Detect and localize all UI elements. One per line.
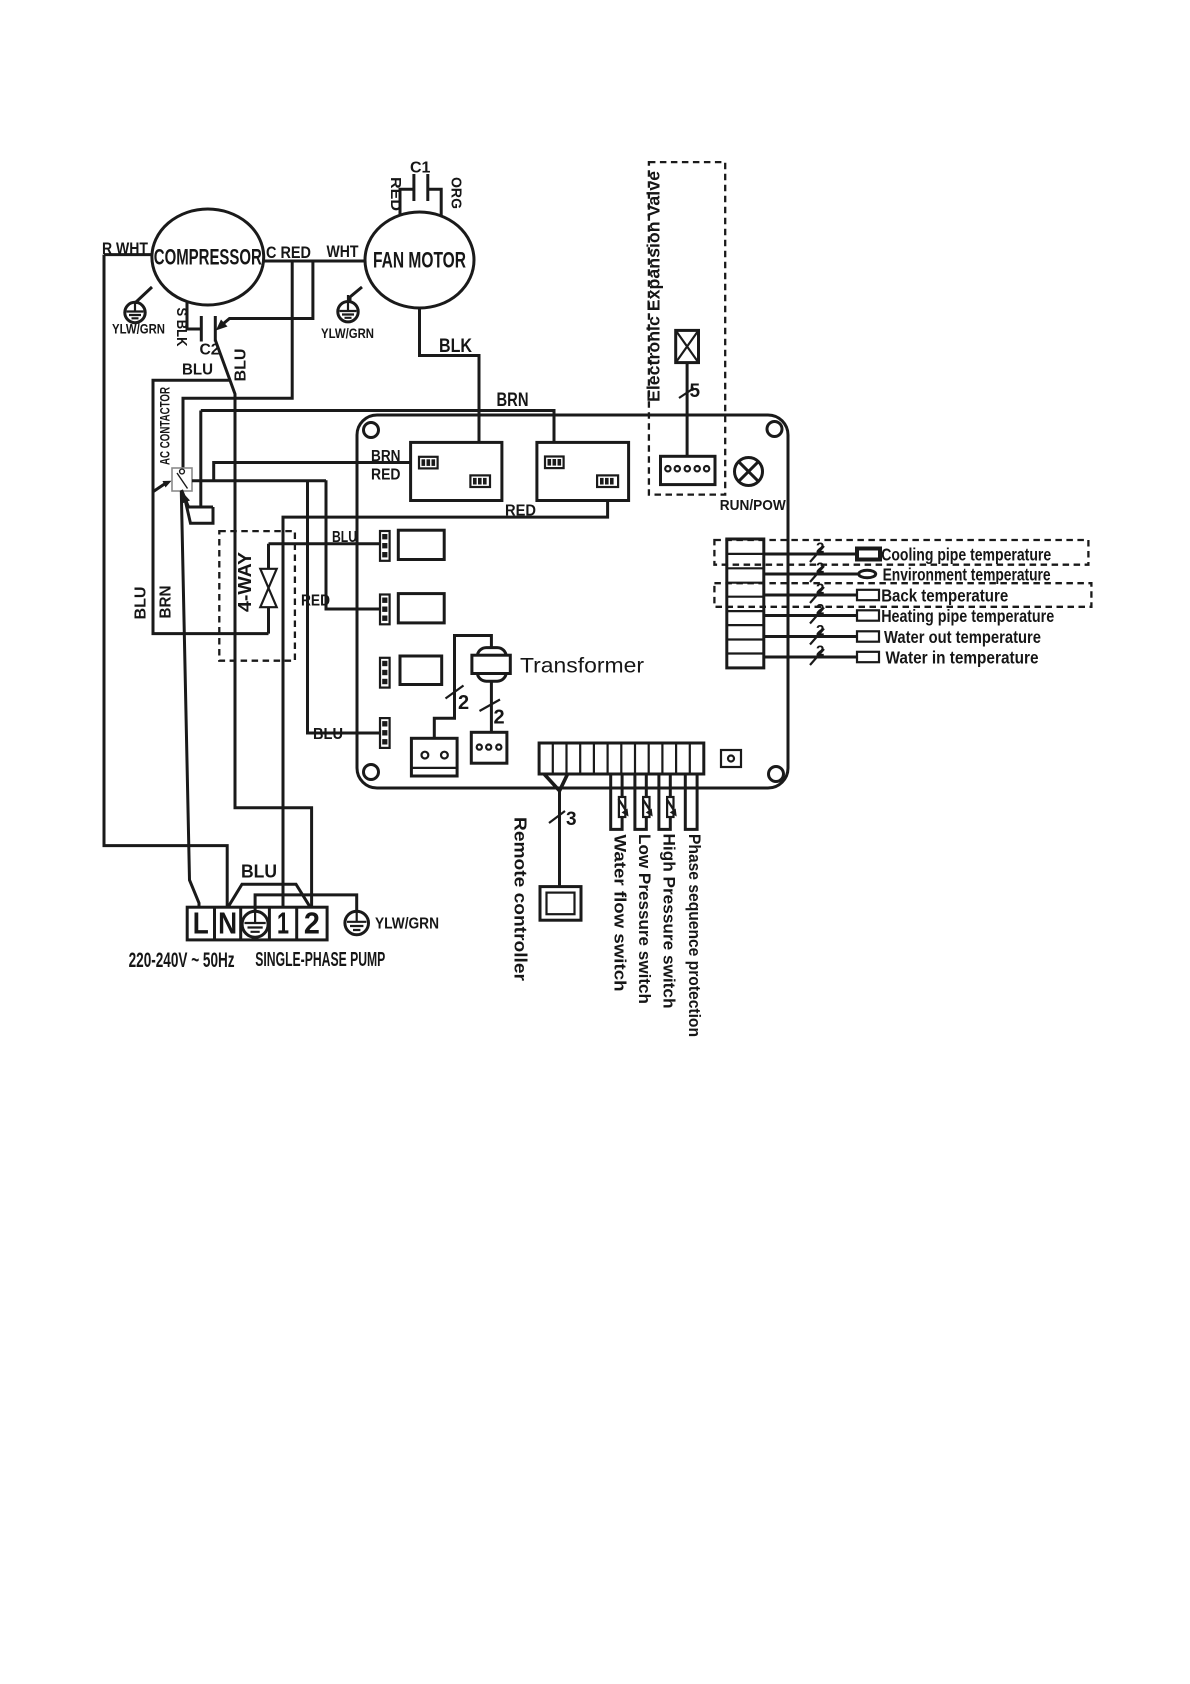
remote controller box — [511, 817, 582, 981]
phase sequence protection loop — [685, 774, 704, 1037]
capacitor C2 (compressor start cap) — [173, 301, 220, 359]
board row3 pin connector — [380, 658, 390, 688]
svg-text:S BLK: S BLK — [173, 308, 190, 347]
ground symbol below fan motor — [321, 287, 374, 341]
board mounting hole bottom-right — [769, 767, 784, 782]
svg-text:High Pressure switch: High Pressure switch — [660, 834, 679, 1009]
svg-text:ORG: ORG — [448, 177, 465, 209]
svg-text:Water flow switch: Water flow switch — [611, 835, 630, 992]
wire R WHT to compressor — [102, 239, 152, 258]
wire compressor C to fan motor WHT — [264, 242, 366, 262]
2-hole connector — [411, 738, 457, 776]
wire RED down to board row2 — [301, 480, 380, 609]
board mounting hole top-right — [767, 422, 782, 437]
svg-text:Water out temperature: Water out temperature — [884, 627, 1041, 647]
wire strip to remote controller with slash 3 — [544, 774, 576, 887]
AC contactor coil box — [157, 387, 193, 491]
fan motor circle — [365, 212, 474, 308]
svg-text:Water in temperature: Water in temperature — [886, 648, 1039, 668]
sensor wire 5 water out temperature — [764, 622, 1041, 647]
svg-text:Phase sequence protection: Phase sequence protection — [685, 834, 704, 1037]
main control board outline — [357, 415, 788, 788]
svg-text:BLK: BLK — [439, 336, 472, 357]
svg-text:2: 2 — [816, 540, 824, 557]
wire valve to 5-pin connector with slash 5 — [679, 363, 701, 457]
relay box 1 labels BRN RED — [371, 448, 401, 484]
svg-text:C1: C1 — [410, 160, 431, 177]
wire BLU 4-way valve to board row1 pins — [269, 529, 381, 546]
board row3 relay rectangle — [400, 656, 442, 685]
svg-text:BLU: BLU — [241, 862, 277, 882]
svg-text:BLU: BLU — [233, 349, 250, 382]
svg-text:WHT: WHT — [327, 242, 359, 261]
relay box 2 — [537, 442, 629, 500]
4-way valve coil symbol — [260, 544, 276, 634]
svg-text:2: 2 — [304, 906, 320, 941]
terminal block L N earth 1 2 — [187, 906, 327, 941]
wire C RED drop to contactor feed — [183, 261, 292, 468]
RUN POW indicator lamp — [720, 458, 787, 515]
low pressure switch loop — [635, 774, 654, 1004]
high pressure switch loop — [659, 774, 679, 1009]
svg-text:RED: RED — [505, 503, 536, 520]
board row4 pin connector — [380, 718, 390, 748]
svg-text:Cooling pipe temperature: Cooling pipe temperature — [881, 545, 1051, 565]
svg-text:BRN: BRN — [158, 586, 175, 619]
svg-text:1: 1 — [277, 906, 289, 941]
compressor motor circle — [152, 209, 264, 305]
wire contactor coil zigzag to BRN run — [182, 411, 214, 524]
expansion valve coil symbol — [676, 330, 699, 362]
svg-text:RED: RED — [371, 467, 401, 484]
4-way valve dashed enclosure — [219, 531, 295, 661]
slash 2 marker on secondary wire — [480, 700, 505, 729]
water flow switch loop — [611, 774, 630, 992]
electronic expansion valve dashed enclosure — [644, 162, 726, 495]
svg-text:YLW/GRN: YLW/GRN — [321, 325, 374, 341]
wire left trunk from R WHT down to terminal N — [104, 255, 227, 908]
external ground YLW GRN near terminal block — [255, 895, 439, 935]
svg-text:Back temperature: Back temperature — [881, 586, 1008, 606]
svg-text:220-240V ~ 50Hz: 220-240V ~ 50Hz — [129, 949, 235, 972]
svg-text:Electronic Expansion Valve: Electronic Expansion Valve — [644, 171, 664, 402]
svg-text:SINGLE-PHASE PUMP: SINGLE-PHASE PUMP — [255, 949, 385, 971]
svg-text:2: 2 — [816, 560, 824, 577]
svg-text:2: 2 — [458, 692, 469, 714]
svg-text:Environment temperature: Environment temperature — [883, 565, 1051, 585]
wire BRN from contactor zigzag to relay 2 — [201, 390, 554, 457]
small square connector bottom right — [721, 750, 741, 767]
sensor wire 3 back temperature — [764, 581, 1009, 606]
svg-text:5: 5 — [690, 381, 701, 402]
board row2 relay rectangle — [398, 594, 444, 623]
board row1 pin connector — [380, 531, 390, 561]
wire BLU lateral to 4-way valve — [153, 362, 269, 634]
svg-text:Heating pipe temperature: Heating pipe temperature — [881, 606, 1054, 626]
svg-text:YLW/GRN: YLW/GRN — [112, 321, 165, 337]
svg-text:2: 2 — [494, 707, 505, 729]
svg-text:2: 2 — [816, 643, 824, 660]
svg-text:BRN: BRN — [371, 448, 401, 465]
svg-text:FAN MOTOR: FAN MOTOR — [373, 248, 466, 273]
svg-text:Transformer: Transformer — [520, 655, 644, 678]
wire WHT junction to C2 right plate with arrow — [216, 261, 313, 331]
board row1 relay rectangle — [398, 530, 444, 559]
svg-text:BLU: BLU — [182, 362, 213, 379]
svg-text:BLU: BLU — [313, 726, 343, 743]
wire BRN trunk from contactor down to terminal L — [181, 491, 199, 907]
relay 1 left pin connector — [419, 457, 438, 469]
svg-text:AC CONTACTOR: AC CONTACTOR — [157, 387, 173, 465]
board right connector ladder for sensors — [727, 539, 764, 668]
dashed box back temperature sensor — [714, 583, 1091, 607]
wire RED from relay2 to terminal 1 — [283, 487, 608, 907]
svg-text:3: 3 — [566, 809, 577, 830]
wire transformer secondary to 3-hole connector — [490, 681, 493, 732]
ground symbol below compressor — [112, 287, 165, 337]
svg-text:Remote controller: Remote controller — [511, 817, 531, 981]
svg-text:4-WAY: 4-WAY — [235, 552, 255, 612]
sensor wire 2 environment temperature — [764, 560, 1051, 585]
wire BRN RED to relay 1 pins — [214, 463, 419, 481]
sensor wire 4 heating pipe temperature — [764, 601, 1055, 626]
wire from BLU trunk diagonal arrow into contactor — [153, 481, 171, 492]
svg-text:2: 2 — [816, 581, 824, 598]
relay box 1 — [411, 442, 502, 500]
bottom multi-pin connector strip — [539, 743, 704, 774]
slash 2 marker on primary wire — [446, 686, 470, 715]
wire fan motor BLK down to relay 1 — [420, 308, 480, 475]
dashed box cooling pipe sensor — [714, 540, 1088, 565]
vertical labels BLU BRN left trunk pair — [133, 586, 175, 620]
transformer T1 — [472, 648, 644, 682]
svg-text:RED: RED — [301, 593, 330, 610]
svg-text:RED: RED — [387, 177, 404, 211]
svg-text:BRN: BRN — [497, 390, 529, 411]
svg-text:2: 2 — [816, 622, 824, 639]
svg-text:COMPRESSOR: COMPRESSOR — [154, 245, 262, 270]
capacitor C1 above fan motor — [387, 160, 465, 217]
3-hole connector — [471, 732, 507, 763]
sensor wire 6 water in temperature — [764, 643, 1039, 668]
wire main line through contactor — [192, 479, 326, 482]
svg-text:YLW/GRN: YLW/GRN — [375, 916, 439, 933]
svg-text:BLU: BLU — [332, 529, 357, 546]
svg-text:RUN/POW: RUN/POW — [720, 497, 787, 514]
svg-text:Low Pressure switch: Low Pressure switch — [635, 834, 654, 1004]
wire BLU down to board row4 — [308, 480, 381, 743]
board mounting hole bottom-left — [364, 765, 379, 780]
relay 2 left pin connector — [545, 457, 564, 469]
relay 1 bottom pin connector — [470, 475, 490, 487]
wire BLU from C2 right plate down to terminal 2 — [215, 340, 311, 907]
sensor wire 1 cooling pipe temperature — [764, 540, 1052, 565]
svg-text:BLU: BLU — [133, 587, 150, 620]
svg-text:2: 2 — [816, 601, 824, 618]
5-pin connector on board — [661, 456, 716, 484]
svg-text:L: L — [193, 906, 209, 941]
svg-text:R WHT: R WHT — [102, 239, 148, 258]
wire BLU jumper N to 2 — [228, 862, 310, 908]
relay 2 bottom pin connector — [597, 475, 618, 487]
earth terminal symbol in block — [242, 911, 268, 937]
svg-text:N: N — [218, 906, 237, 941]
board mounting hole top-left — [364, 423, 379, 438]
svg-text:C RED: C RED — [266, 243, 311, 262]
board row2 pin connector — [380, 595, 390, 625]
wire transformer primary to 2-hole connector — [434, 636, 491, 739]
